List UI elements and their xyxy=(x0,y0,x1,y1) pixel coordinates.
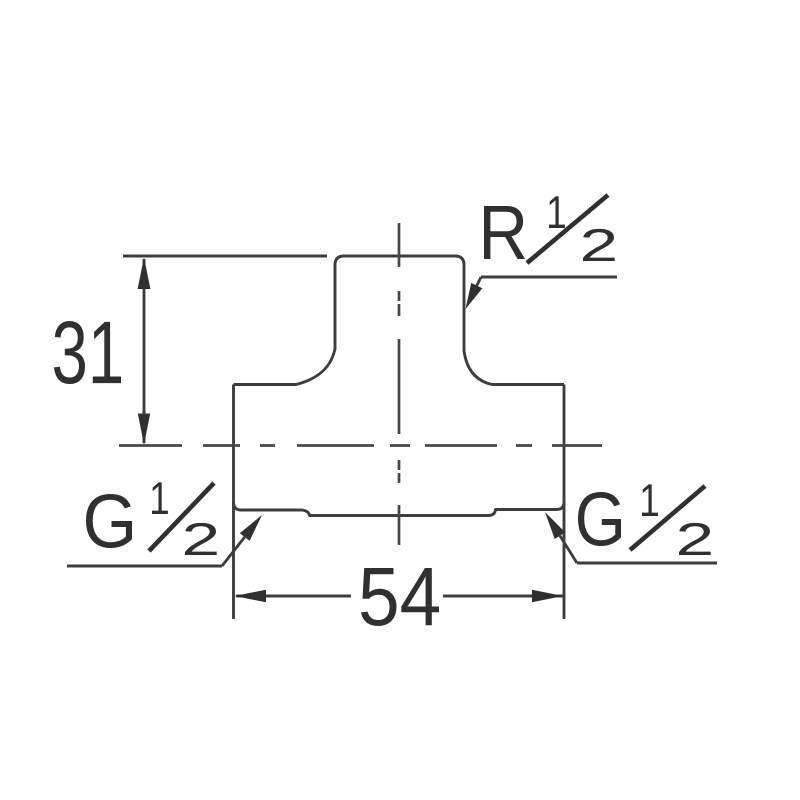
dimension 31: top arrowhead xyxy=(138,258,151,290)
dimension 31: extension line (top) xyxy=(123,255,327,258)
label G 1/2 left: leader arrowhead xyxy=(240,515,262,541)
label G 1/2 right: fraction denominator 2 xyxy=(679,523,711,555)
dimension 31: bottom arrowhead xyxy=(138,414,150,446)
label G 1/2 right: letter G xyxy=(578,492,621,546)
label G 1/2 left: fraction slash xyxy=(149,483,214,551)
label G 1/2 left: fraction denominator 2 xyxy=(185,523,217,555)
label G 1/2 left: underline xyxy=(67,565,222,568)
wire: body right edge + 54 extension line xyxy=(563,385,566,620)
label R 1/2: fraction denominator 2 xyxy=(583,229,615,261)
dimension 54: dimension line left segment xyxy=(236,595,351,598)
label R 1/2: leader line xyxy=(477,277,481,286)
label R 1/2: leader arrowhead xyxy=(466,283,483,309)
dimension 54: right arrowhead xyxy=(532,590,563,603)
dimension 54: left arrowhead xyxy=(235,590,267,603)
horizontal centerline xyxy=(119,444,602,447)
dimension text 31 xyxy=(54,321,121,384)
label G 1/2 right: leader line xyxy=(560,536,577,563)
dimension 54: dimension line right segment xyxy=(443,595,563,598)
wire: body left edge + 54 extension line xyxy=(232,385,235,620)
label G 1/2 right: leader arrowhead xyxy=(545,512,565,539)
tee fitting body outline xyxy=(234,256,565,385)
label G 1/2 right: fraction numerator 1 xyxy=(642,484,658,516)
label R 1/2: fraction slash xyxy=(527,195,608,263)
label G 1/2 right: fraction slash xyxy=(630,486,705,550)
wire: body bottom edge with thread steps xyxy=(234,502,565,516)
label G 1/2 left: letter G xyxy=(86,494,132,548)
label R 1/2: underline xyxy=(481,276,617,279)
vertical centerline xyxy=(398,223,401,545)
dimension text 54 xyxy=(361,568,439,626)
label R 1/2: fraction numerator 1 xyxy=(549,196,565,228)
label G 1/2 right: underline xyxy=(577,562,717,565)
label R 1/2: letter R xyxy=(484,206,525,259)
label G 1/2 left: leader line xyxy=(222,537,245,566)
label G 1/2 left: fraction numerator 1 xyxy=(152,482,168,514)
dimension 31: dimension line xyxy=(143,259,146,443)
